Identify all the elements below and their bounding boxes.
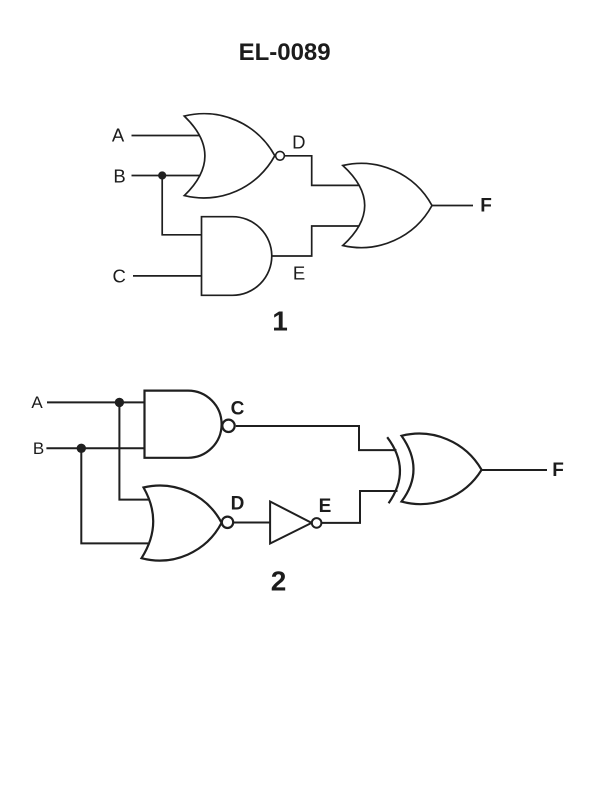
XOR gate U7 (output F) bbox=[402, 434, 482, 504]
inverter U6 output bubble bbox=[312, 518, 322, 528]
NOR gate U5 (output D) bbox=[142, 486, 222, 561]
svg-text:C: C bbox=[113, 266, 126, 287]
wire D: NOR output to inverter U6 bbox=[233, 522, 270, 524]
svg-text:E: E bbox=[293, 263, 305, 284]
wire F: XOR U7 output bbox=[482, 469, 547, 471]
wire A input to NAND U4 bbox=[47, 401, 146, 403]
wire E: inverter output to XOR U7 bottom input bbox=[321, 491, 397, 523]
wire B input to NOR U1 bbox=[132, 175, 202, 177]
AND gate U2 (2-input, output E) bbox=[202, 217, 272, 296]
node B junction dot (circuit 2) bbox=[77, 444, 86, 453]
svg-text:D: D bbox=[231, 494, 245, 515]
NOR U5 output bubble bbox=[222, 517, 233, 528]
wire B branch to AND U2 top input bbox=[162, 176, 203, 235]
svg-text:F: F bbox=[552, 460, 564, 481]
wire C: NAND output to XOR U7 top input bbox=[236, 426, 397, 450]
XOR U7 input-side arc bbox=[387, 437, 400, 503]
svg-text:A: A bbox=[31, 393, 43, 412]
NOR U1 output bubble bbox=[276, 151, 285, 160]
wire F: OR U3 output bbox=[432, 205, 473, 207]
svg-text:B: B bbox=[33, 439, 44, 458]
wire B branch to NOR U5 bottom input bbox=[81, 448, 148, 543]
svg-text:2: 2 bbox=[271, 566, 287, 597]
svg-text:B: B bbox=[113, 165, 125, 186]
wire D: NOR output to OR U3 top input bbox=[284, 156, 362, 186]
svg-text:D: D bbox=[292, 132, 305, 153]
svg-text:1: 1 bbox=[272, 305, 288, 336]
wire A branch to NOR U5 top input bbox=[119, 402, 152, 499]
wire E: AND output to OR U3 bottom input bbox=[271, 226, 365, 256]
svg-text:A: A bbox=[112, 125, 125, 146]
NOR gate U1 (2-input, output D) bbox=[184, 114, 274, 198]
node A junction dot (circuit 2) bbox=[115, 398, 124, 407]
inverter U6 (output E) bbox=[270, 502, 312, 544]
wire C input to AND U2 bbox=[133, 275, 203, 277]
node B junction dot bbox=[158, 171, 166, 179]
wire B input to NAND U4 bbox=[46, 447, 146, 449]
svg-text:C: C bbox=[231, 398, 245, 419]
svg-text:E: E bbox=[319, 496, 332, 517]
OR gate U3 (2-input, output F) bbox=[343, 163, 432, 247]
NAND U4 output bubble bbox=[222, 420, 234, 432]
wire A input to NOR U1 bbox=[132, 135, 202, 137]
svg-text:EL-0089: EL-0089 bbox=[239, 39, 331, 66]
svg-text:F: F bbox=[480, 195, 492, 216]
NAND gate U4 (output C) bbox=[145, 391, 222, 458]
